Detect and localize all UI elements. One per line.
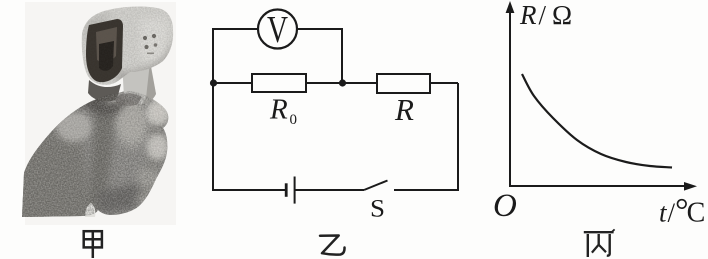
svg-text:R: R — [269, 94, 288, 126]
svg-text:S: S — [370, 195, 385, 222]
svg-text:R/Ω: R/Ω — [519, 0, 572, 30]
svg-text:R: R — [394, 92, 414, 127]
svg-text:V: V — [267, 9, 288, 51]
svg-text:t/°C: t/°C — [659, 193, 705, 230]
svg-text:O: O — [493, 188, 517, 224]
svg-text:0: 0 — [290, 112, 298, 128]
